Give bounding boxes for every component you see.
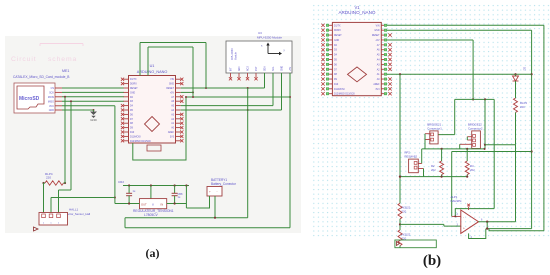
svg-text:D10: D10 [334, 84, 339, 86]
svg-text:(a): (a) [146, 246, 160, 260]
svg-text:MISO: MISO [48, 100, 54, 103]
svg-text:OUT: OUT [141, 202, 147, 206]
svg-text:MOSI: MOSI [48, 96, 54, 99]
svg-text:INT: INT [231, 67, 233, 71]
svg-text:GND: GND [282, 66, 284, 71]
svg-text:220: 220 [402, 210, 407, 214]
svg-text:-: - [463, 216, 464, 220]
svg-text:SCL: SCL [273, 66, 275, 71]
svg-text:Connector2: Connector2 [468, 126, 483, 130]
svg-text:MicroSD: MicroSD [19, 96, 40, 102]
svg-text:3V3: 3V3 [375, 89, 380, 91]
svg-text:D0/RX: D0/RX [130, 84, 137, 86]
svg-text:Battery_Conector: Battery_Conector [211, 182, 237, 186]
svg-text:L7805CV: L7805CV [144, 213, 159, 217]
svg-text:202: 202 [431, 168, 436, 172]
svg-text:D11/MOSI: D11/MOSI [130, 136, 141, 138]
svg-text:MPU-9250 Module: MPU-9250 Module [257, 36, 282, 40]
svg-text:D1/TX: D1/TX [130, 79, 137, 81]
svg-text:U3: U3 [258, 31, 262, 35]
svg-text:IN: IN [161, 202, 164, 206]
svg-text:CATALEX_Micro_SD_Card_module_B: CATALEX_Micro_SD_Card_module_B [13, 75, 70, 79]
svg-text:VIN: VIN [170, 79, 174, 81]
svg-text:NCS: NCS [248, 66, 250, 71]
svg-text:AREF: AREF [168, 131, 175, 134]
svg-text:CR2: CR2 [118, 180, 124, 184]
svg-text:GND: GND [334, 40, 339, 42]
svg-text:RESET: RESET [334, 35, 342, 37]
svg-text:3V3: 3V3 [170, 136, 175, 138]
svg-text:CS: CS [51, 87, 55, 90]
svg-text:SDA: SDA [264, 66, 267, 71]
svg-text:D2: D2 [523, 67, 527, 71]
svg-text:D12/MISO D13/SCK: D12/MISO D13/SCK [334, 94, 355, 96]
svg-text:ARDUINO_NANO: ARDUINO_NANO [137, 70, 168, 74]
svg-text:GND: GND [169, 84, 174, 86]
svg-text:D12/MISO D13/SCK: D12/MISO D13/SCK [130, 141, 151, 143]
svg-text:PESW-B2: PESW-B2 [405, 154, 418, 158]
svg-text:GND: GND [130, 92, 135, 94]
svg-text:Connector1: Connector1 [427, 126, 442, 130]
svg-text:ME1: ME1 [62, 69, 69, 73]
svg-text:RESET: RESET [372, 35, 380, 37]
svg-text:GND: GND [90, 118, 96, 122]
svg-text:+: + [209, 190, 211, 194]
svg-text:FSY: FSY [256, 66, 258, 71]
svg-text:202: 202 [470, 168, 475, 172]
svg-text:VCC: VCC [49, 105, 54, 108]
svg-text:D0/RX: D0/RX [334, 30, 341, 32]
svg-text:220: 220 [46, 176, 51, 180]
svg-text:VIN: VIN [376, 25, 380, 27]
svg-text:+: + [463, 227, 465, 231]
svg-text:GND: GND [374, 30, 379, 32]
svg-text:GND: GND [49, 109, 55, 112]
svg-text:NAI22Pk: NAI22Pk [451, 199, 463, 203]
svg-text:+5V: +5V [170, 92, 175, 94]
svg-text:220: 220 [520, 105, 525, 109]
svg-text:RESET: RESET [166, 88, 174, 90]
svg-text:+5V: +5V [290, 66, 292, 71]
svg-text:Module: Module [235, 51, 238, 60]
svg-text:RESET: RESET [130, 88, 138, 90]
svg-text:SCK: SCK [49, 92, 54, 95]
svg-text:AD0: AD0 [238, 66, 241, 71]
svg-text:D11/MOSI: D11/MOSI [334, 89, 345, 91]
svg-text:-: - [217, 190, 218, 194]
svg-text:+5V: +5V [375, 40, 380, 42]
svg-text:(b): (b) [423, 253, 441, 269]
svg-text:ARDUINO_NANO: ARDUINO_NANO [338, 10, 375, 15]
svg-text:U1: U1 [150, 64, 155, 68]
svg-text:schema: schema [48, 56, 77, 63]
svg-text:AREF: AREF [373, 83, 380, 86]
svg-text:Circuit: Circuit [11, 56, 37, 63]
svg-text:D1/TX: D1/TX [334, 25, 341, 27]
svg-text:D10: D10 [130, 132, 135, 134]
